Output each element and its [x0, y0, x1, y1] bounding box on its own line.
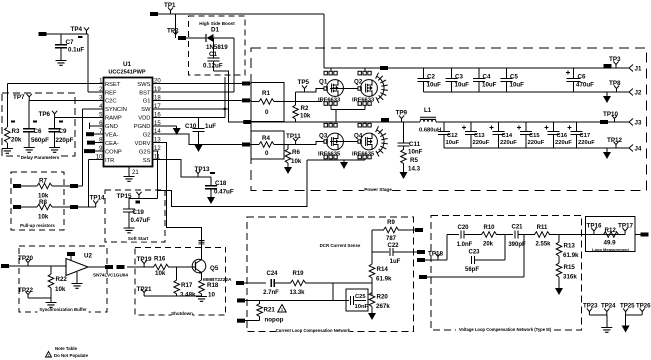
svg-text:Synchronization Buffer: Synchronization Buffer	[39, 307, 87, 312]
wire R3 to ground	[6, 143, 8, 148]
svg-text:TP17: TP17	[618, 223, 634, 230]
wire R14 bottom	[371, 278, 373, 295]
wire R2 bottom	[295, 119, 297, 122]
wire ITR to C24	[244, 282, 266, 284]
svg-text:R3: R3	[12, 128, 20, 135]
svg-text:220uF: 220uF	[500, 140, 517, 146]
wire U2 ground stub	[76, 272, 78, 283]
svg-text:Shutdown: Shutdown	[171, 311, 193, 316]
delay parameters box	[2, 93, 75, 156]
svg-text:R12: R12	[605, 227, 617, 234]
U1 pin 17 SW	[153, 108, 159, 110]
C15 plus	[517, 126, 521, 130]
wire R13 R15 mid	[558, 256, 560, 263]
wire CEA- stub	[95, 142, 98, 144]
U1 pin 16 VDD	[153, 116, 159, 118]
wire TP2 branch	[175, 14, 177, 38]
svg-text:TP7: TP7	[13, 94, 25, 101]
wire C18 stub	[210, 177, 212, 186]
svg-text:10nF: 10nF	[408, 149, 423, 156]
net flag R21 bottom	[237, 319, 245, 323]
wire SW pin17	[159, 108, 229, 110]
wire C3 bottom stub	[451, 82, 453, 93]
svg-text:C23: C23	[468, 250, 480, 256]
svg-text:RAMP: RAMP	[105, 116, 122, 122]
svg-text:R5: R5	[410, 157, 418, 164]
capacitor C5	[501, 79, 513, 82]
capacitor C4	[473, 79, 485, 82]
net flag C22 out	[417, 250, 425, 254]
wire SYNCIN pin4	[83, 108, 98, 110]
resistor R11	[535, 232, 550, 238]
svg-text:3.48k: 3.48k	[180, 292, 196, 299]
wire G2S pin12 route down	[153, 150, 158, 152]
svg-text:R16: R16	[154, 256, 166, 263]
wire C6 top stub	[573, 68, 575, 79]
svg-text:J3: J3	[635, 120, 642, 127]
wire riser right	[523, 235, 525, 278]
capacitor C13	[465, 132, 477, 135]
wire R17 bottom	[176, 294, 178, 296]
connector J1	[629, 65, 633, 72]
svg-text:TP9: TP9	[396, 110, 408, 117]
svg-text:J2: J2	[635, 90, 642, 97]
wire J4 ground stub	[606, 148, 608, 152]
test point TP18	[435, 253, 440, 260]
svg-text:TP5: TP5	[298, 79, 310, 86]
svg-text:TP26: TP26	[636, 303, 651, 310]
svg-text:D1: D1	[211, 27, 219, 34]
U1 pin 19 BST	[153, 91, 159, 93]
test point TP13	[195, 170, 200, 177]
delay parameters label	[20, 155, 60, 161]
svg-text:J4: J4	[635, 146, 642, 153]
svg-text:C22: C22	[387, 243, 399, 249]
capacitor C21	[515, 230, 518, 238]
wire RSET pin1	[7, 83, 97, 85]
svg-text:VDD: VDD	[138, 116, 150, 122]
net flag loop out	[641, 233, 649, 237]
svg-text:20k: 20k	[483, 242, 494, 248]
test point TP2	[173, 31, 178, 38]
U1 pin 8 CEA-	[98, 142, 104, 144]
svg-text:56pF: 56pF	[465, 267, 479, 273]
resistor R4	[259, 142, 274, 148]
svg-text:Note Table: Note Table	[55, 346, 78, 351]
svg-text:R18: R18	[207, 282, 219, 289]
capacitor C25	[351, 296, 354, 305]
capacitor C7	[55, 45, 67, 48]
net flag CONP	[84, 149, 95, 153]
shutdown label	[172, 311, 193, 317]
svg-text:0: 0	[265, 109, 269, 116]
ground arrow TP25 TP26	[622, 326, 630, 333]
U1 pin 10 ITR	[98, 159, 104, 161]
capacitor C15	[520, 132, 532, 135]
wire C13 top stub	[470, 122, 472, 132]
svg-text:C21: C21	[511, 225, 523, 231]
svg-text:0.47uF: 0.47uF	[131, 217, 151, 224]
ground C19	[124, 228, 135, 233]
wire C1 bottom	[213, 61, 215, 71]
svg-text:nopop: nopop	[265, 317, 284, 324]
wire VDD pin16	[159, 116, 225, 118]
test point TP16	[591, 228, 596, 235]
net flag TP3	[604, 64, 612, 68]
footprint mark C6	[33, 121, 37, 123]
voltage loop compensation box	[431, 215, 582, 330]
transistor Q5 MMBT2222A	[192, 259, 206, 273]
wire R2 top	[295, 92, 297, 105]
svg-text:R7: R7	[39, 178, 47, 185]
capacitor C9	[49, 129, 61, 132]
Q2 gate pad	[358, 87, 361, 90]
wire R22 to ground	[50, 298, 52, 302]
ground arrow R6	[284, 167, 292, 174]
ground arrow R20	[368, 313, 376, 320]
svg-text:TP24: TP24	[601, 303, 616, 310]
svg-text:C6: C6	[578, 74, 586, 81]
svg-text:1.0nF: 1.0nF	[457, 242, 473, 248]
svg-text:ITR: ITR	[105, 158, 114, 164]
svg-text:2.55k: 2.55k	[535, 242, 551, 248]
svg-text:1N5819: 1N5819	[206, 44, 228, 51]
ground arrow J2	[603, 96, 611, 103]
svg-text:20k: 20k	[11, 137, 22, 144]
svg-text:C9: C9	[59, 128, 67, 135]
svg-text:TP22: TP22	[18, 287, 34, 294]
test point TP4	[84, 27, 89, 34]
svg-text:Q5: Q5	[210, 265, 219, 272]
svg-text:C11: C11	[409, 141, 421, 148]
svg-text:R9: R9	[387, 220, 395, 226]
wire TP21 to R17 R18	[144, 295, 201, 297]
capacitor C3	[446, 79, 458, 82]
wire source bus center stub	[343, 160, 345, 162]
wire pad21 to ground	[128, 167, 130, 177]
svg-text:Q2: Q2	[354, 79, 363, 86]
wire Q4 drain stub	[364, 122, 366, 123]
net flag shutdown input	[117, 265, 125, 269]
net flag U2 vcc	[67, 252, 75, 256]
resistor R20	[369, 293, 375, 307]
svg-text:R22: R22	[56, 276, 68, 283]
wire R14 node up	[371, 230, 373, 264]
wire output ground bus	[444, 147, 629, 149]
wire row1 a	[447, 234, 459, 236]
GND pin6 bar	[89, 123, 91, 130]
wire G2S vertical	[157, 151, 159, 198]
svg-text:TP21: TP21	[137, 286, 153, 293]
svg-text:U1: U1	[123, 61, 132, 68]
Q2 heat fan	[376, 73, 388, 103]
op-amp U1 body UCC2541PWP	[104, 78, 153, 167]
svg-text:13.3k: 13.3k	[289, 290, 305, 296]
wire BST vertical	[233, 38, 235, 92]
svg-text:SYNCIN: SYNCIN	[105, 107, 127, 113]
capacitor C23	[472, 256, 475, 264]
svg-text:61.9k: 61.9k	[563, 252, 579, 259]
test point TP19	[142, 260, 147, 267]
svg-text:Loop Measurement: Loop Measurement	[592, 247, 629, 252]
svg-text:C3: C3	[455, 74, 463, 81]
resistor R17	[174, 280, 180, 294]
svg-text:220uF: 220uF	[528, 140, 545, 146]
wire R8 right to ITR net	[52, 206, 96, 208]
svg-text:R6: R6	[292, 149, 300, 156]
soft start box	[105, 190, 165, 242]
resistor R15	[556, 263, 562, 277]
net flag U2 output	[105, 265, 113, 269]
svg-text:C12: C12	[447, 133, 458, 139]
ground arrow PGND	[173, 128, 181, 135]
loop measurement box	[585, 217, 635, 252]
U1 pin 18 G1	[153, 99, 159, 101]
svg-text:14.3: 14.3	[408, 166, 421, 173]
test point TP5	[302, 85, 307, 92]
svg-text:R14: R14	[377, 266, 389, 273]
svg-text:J1: J1	[635, 66, 642, 73]
U1 pin 6 GND	[98, 125, 104, 127]
wire C5 bottom stub	[506, 82, 508, 93]
net flag R9 out	[415, 228, 423, 232]
svg-text:TP19: TP19	[137, 256, 153, 263]
wire R9 left	[372, 229, 384, 231]
voltage loop label	[456, 327, 554, 332]
wire RSET down to R3	[6, 84, 8, 128]
wire R5 to ground	[403, 164, 405, 173]
svg-text:PGND: PGND	[134, 124, 151, 130]
resistor R4 enclosure	[251, 131, 284, 159]
U1 pin 15 PGND	[153, 125, 159, 127]
Q1 gate pad	[324, 87, 327, 90]
wire C2C pin3	[29, 99, 97, 101]
svg-text:21: 21	[132, 170, 139, 176]
test point TP10	[612, 115, 617, 122]
U1 pin 1 RSET	[98, 83, 104, 85]
wire C15 top stub	[525, 122, 527, 132]
wire C1 top	[213, 38, 215, 58]
svg-text:R19: R19	[292, 271, 304, 277]
wire C6 stub	[28, 100, 30, 129]
svg-text:TP12: TP12	[607, 137, 623, 144]
wire C2 top stub	[423, 68, 425, 79]
wire row1 d	[518, 234, 535, 236]
wire R21 bottom row	[245, 320, 260, 322]
transistor Q1 IRF6633	[327, 80, 344, 97]
wire SWS pin20	[159, 83, 252, 85]
wire R19 to R14 node	[305, 282, 372, 284]
ground R22	[46, 303, 57, 308]
wire PGND drop	[176, 126, 178, 128]
high side boost box	[189, 16, 246, 75]
svg-text:Q1: Q1	[319, 79, 328, 86]
wire R22 top	[50, 266, 52, 274]
wire row2	[475, 259, 505, 261]
junction SW rail	[224, 108, 227, 111]
Q3 bottom pads	[324, 155, 337, 159]
wire R13 top	[558, 235, 560, 243]
wire C14 top stub	[498, 122, 500, 132]
svg-text:2.7nF: 2.7nF	[263, 290, 279, 296]
capacitor C16	[548, 132, 560, 135]
capacitor C10	[193, 129, 205, 132]
svg-text:TP13: TP13	[195, 166, 211, 173]
svg-text:TP23: TP23	[583, 303, 598, 310]
svg-text:C19: C19	[133, 209, 145, 216]
svg-text:TP14: TP14	[90, 195, 106, 202]
wire C12 top stub	[443, 122, 445, 132]
wire C16 bottom stub	[553, 135, 555, 149]
Q2 bottom pads	[358, 102, 371, 106]
connector J3	[629, 119, 633, 126]
net flag CEA sense	[237, 299, 245, 303]
current loop compensation box	[247, 217, 414, 331]
wire C6 to ground	[28, 132, 30, 147]
test point TP26	[640, 308, 645, 315]
wire C17 top stub	[576, 122, 578, 132]
net flag G1	[242, 98, 250, 102]
net flag gnd sense	[419, 275, 427, 279]
wire C11 to R5	[403, 146, 405, 150]
svg-text:Do Not Populate: Do Not Populate	[54, 353, 89, 358]
capacitor C24	[271, 279, 274, 287]
wire gate bus Q4	[330, 141, 358, 143]
wire R4 left	[251, 144, 259, 146]
svg-text:DCR Current Sense: DCR Current Sense	[320, 243, 361, 248]
wire C16 top stub	[553, 122, 555, 132]
test point TP1	[168, 7, 173, 14]
svg-text:RSET: RSET	[105, 82, 121, 88]
wire R1 right	[274, 101, 284, 103]
wire R9 right	[398, 229, 415, 231]
net flag drain bus	[380, 66, 388, 70]
svg-text:R10: R10	[483, 225, 495, 231]
U1 pin 20 SWS	[153, 83, 159, 85]
capacitor C11	[398, 143, 410, 146]
svg-text:G1: G1	[143, 99, 151, 105]
wire VEA- stub	[94, 133, 98, 135]
wire gate bus Q3	[284, 142, 324, 145]
C17 plus	[568, 126, 572, 130]
transistor Q2 IRF6633	[361, 80, 378, 97]
wire R20 bottom	[371, 307, 373, 314]
svg-text:SN74LVC1GU04: SN74LVC1GU04	[93, 273, 128, 278]
wire VDD rail up	[224, 77, 226, 117]
capacitor C12	[438, 132, 450, 135]
svg-text:R15: R15	[564, 264, 576, 271]
svg-text:220uF: 220uF	[578, 140, 595, 146]
wire TP25 TP26	[626, 314, 643, 316]
svg-text:220uF: 220uF	[555, 140, 572, 146]
svg-text:R17: R17	[181, 282, 193, 289]
net flag R7 left	[13, 184, 21, 188]
svg-text:GND: GND	[105, 124, 118, 130]
svg-text:Delay Parameters: Delay Parameters	[21, 155, 60, 160]
test point TP9	[399, 115, 404, 122]
svg-text:C17: C17	[580, 133, 591, 139]
svg-text:C6: C6	[34, 128, 42, 135]
svg-text:1: 1	[48, 354, 50, 358]
ground arrow J4	[603, 152, 611, 159]
svg-text:R21: R21	[264, 307, 276, 314]
svg-text:C16: C16	[557, 133, 568, 139]
wire VDRV pin13 route to shutdown	[153, 143, 202, 248]
synchronization buffer label	[37, 307, 88, 312]
wire Q2 drain stub	[364, 68, 366, 71]
svg-text:G2: G2	[143, 133, 151, 139]
svg-text:Soft Start: Soft Start	[128, 236, 149, 241]
wire C25 right	[354, 300, 366, 302]
current loop label	[276, 328, 350, 333]
svg-text:VDRV: VDRV	[134, 141, 150, 147]
wire R16 to Q5 base	[168, 266, 196, 268]
Q2 top pads	[358, 71, 371, 75]
svg-text:BST: BST	[139, 90, 151, 96]
ground C9	[49, 148, 60, 153]
net flag R8 right	[70, 205, 78, 209]
svg-text:C5: C5	[510, 74, 518, 81]
ground arrow C18	[207, 197, 215, 204]
wire VIN drain bus	[324, 67, 629, 69]
svg-text:CONP: CONP	[105, 149, 122, 155]
wire C9 to ground	[54, 132, 56, 147]
svg-text:TP4: TP4	[71, 26, 83, 33]
wire TP ground stub b	[625, 315, 627, 326]
svg-text:787: 787	[386, 236, 397, 242]
shutdown box	[135, 247, 226, 315]
wire C10 stub	[198, 117, 200, 128]
wire ITR down	[88, 160, 90, 207]
svg-text:10uF: 10uF	[455, 82, 470, 89]
net flag sync input	[1, 264, 9, 268]
capacitor C2	[418, 79, 430, 82]
svg-text:220uF: 220uF	[473, 140, 490, 146]
ground U1 pad	[124, 177, 135, 182]
net flag SW at R1 box	[243, 120, 251, 124]
svg-text:10: 10	[208, 292, 215, 299]
svg-text:560pF: 560pF	[31, 137, 49, 144]
connector J2	[629, 89, 633, 96]
svg-text:1uF: 1uF	[205, 123, 216, 130]
wire R7 right	[52, 185, 83, 187]
svg-text:10k: 10k	[155, 270, 166, 277]
svg-text:C4: C4	[483, 74, 491, 81]
ground arrow C10	[195, 145, 203, 152]
capacitor C25 enclosure	[346, 289, 368, 311]
Q3 gate pad	[324, 140, 327, 143]
wire R12 out	[635, 234, 641, 236]
Q4 bottom pads	[358, 155, 371, 159]
svg-text:0.47uF: 0.47uF	[214, 189, 234, 196]
wire R21 bottom stub	[259, 317, 261, 321]
wire R1 left	[251, 101, 259, 103]
wire C5 top stub	[506, 68, 508, 79]
wire C22 right	[393, 251, 417, 253]
svg-text:SWS: SWS	[137, 82, 150, 88]
wire output bus	[436, 121, 629, 123]
footprint mark R3	[11, 121, 15, 123]
wire R6 bottom	[287, 163, 289, 167]
C6 plus	[566, 71, 570, 75]
net flag ITR input	[236, 281, 244, 285]
svg-text:C25: C25	[355, 294, 366, 300]
capacitor C17	[571, 132, 583, 135]
svg-text:C18: C18	[215, 180, 227, 187]
net flag TP1 VIN	[150, 12, 158, 16]
wire R4 right	[274, 144, 284, 146]
resistor R13	[556, 242, 562, 256]
